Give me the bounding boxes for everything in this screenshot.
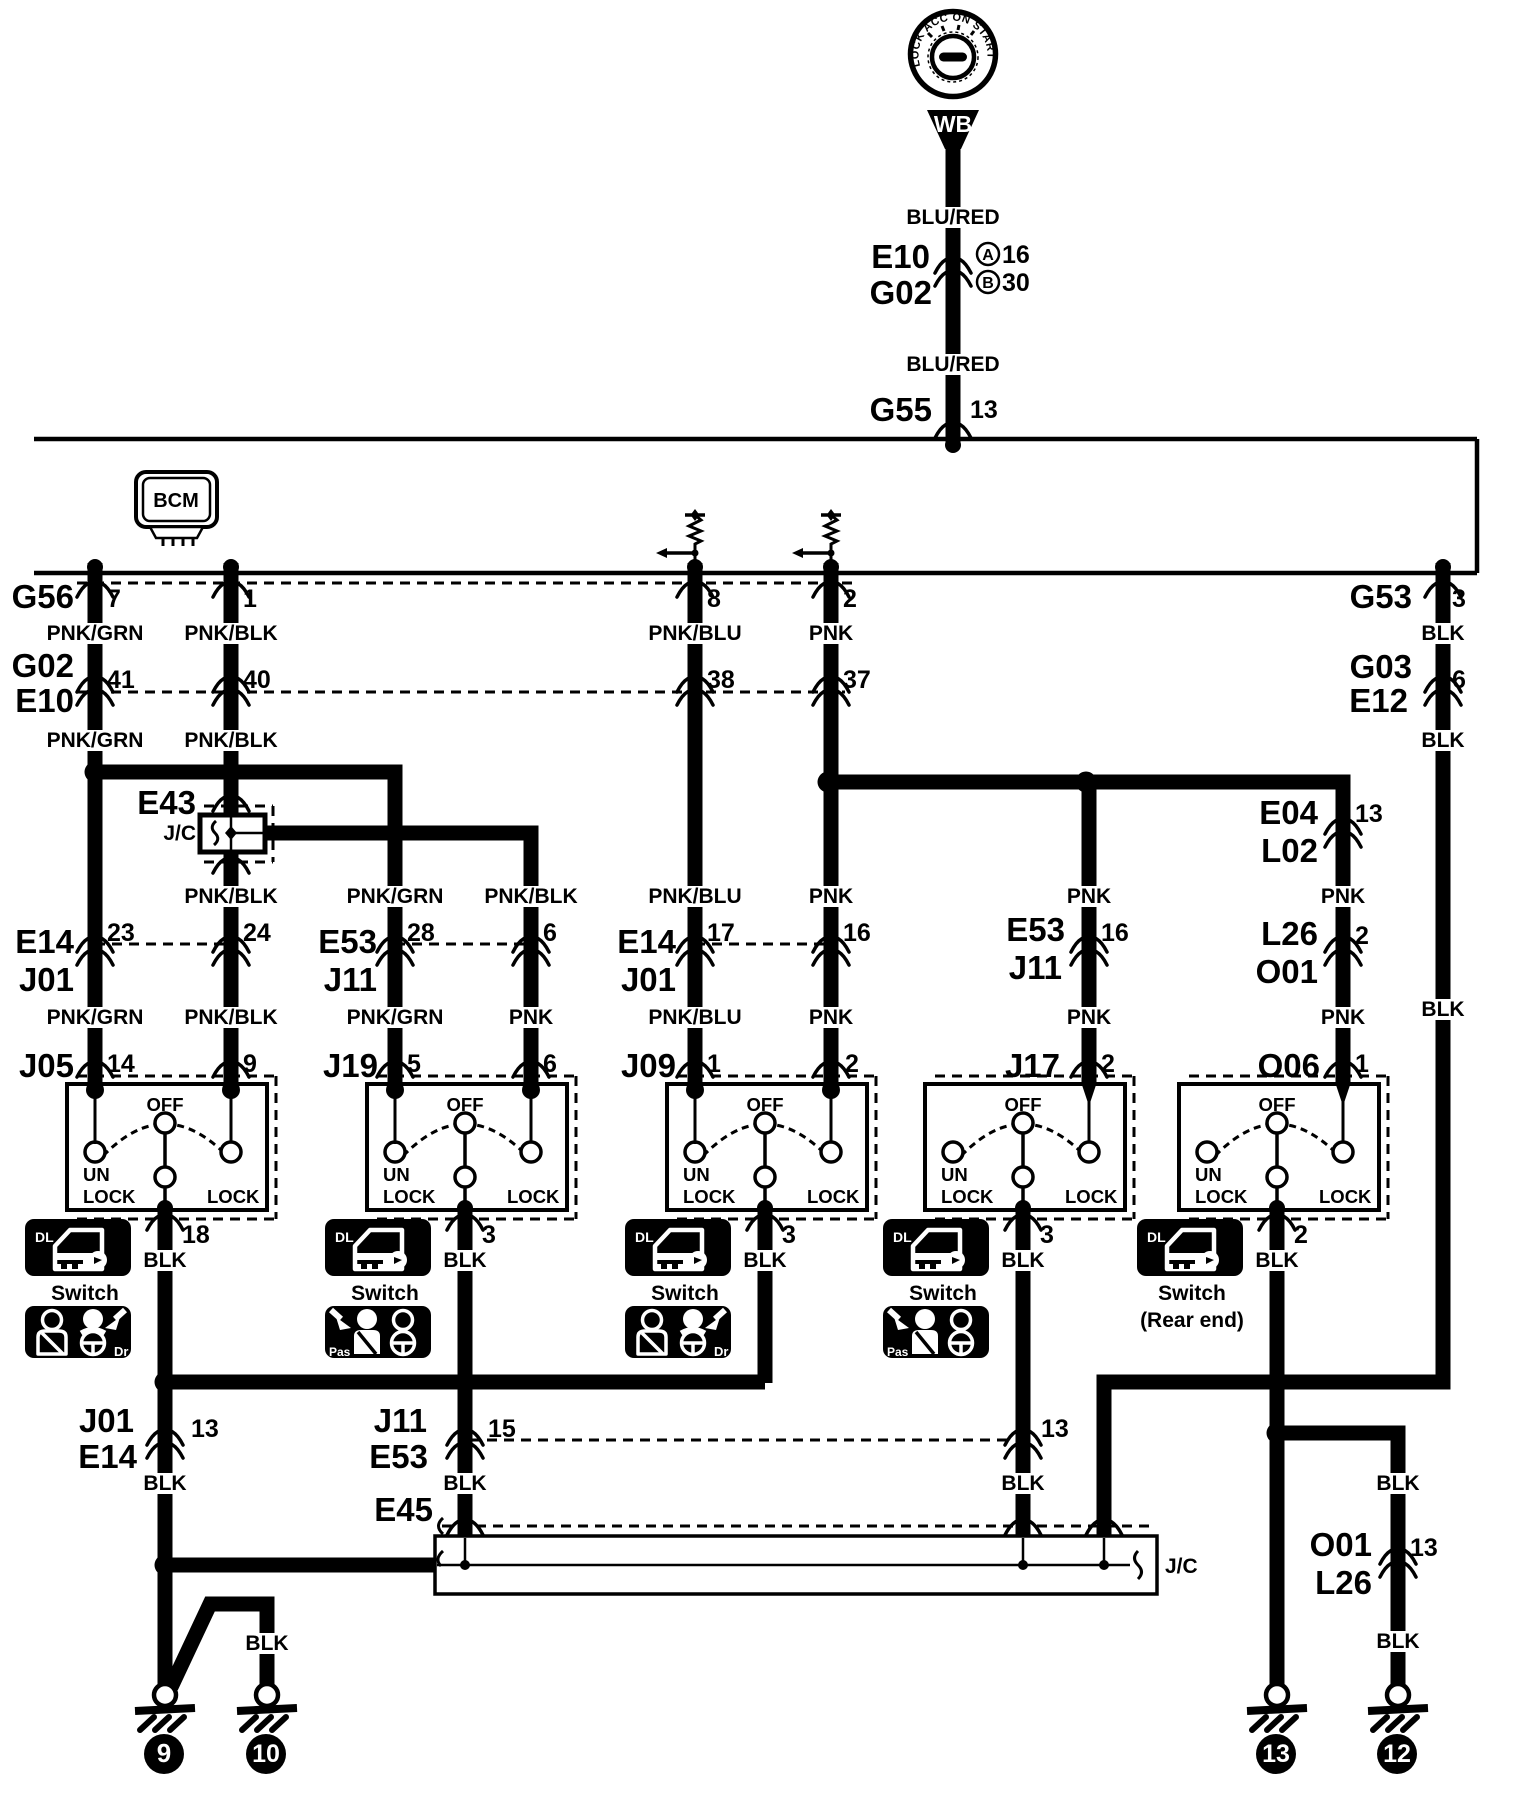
svg-text:Switch: Switch	[51, 1282, 119, 1305]
svg-text:WB: WB	[934, 111, 972, 137]
svg-text:J01: J01	[79, 1402, 134, 1439]
svg-text:E12: E12	[1349, 682, 1408, 719]
svg-text:2: 2	[843, 585, 857, 613]
svg-text:J11: J11	[374, 1402, 427, 1439]
svg-text:6: 6	[1452, 666, 1466, 694]
svg-text:E10: E10	[15, 682, 74, 719]
svg-text:J05: J05	[19, 1047, 74, 1084]
svg-text:Switch: Switch	[651, 1282, 719, 1305]
svg-text:J09: J09	[621, 1047, 676, 1084]
svg-text:E53: E53	[318, 923, 377, 960]
svg-text:G53: G53	[1350, 578, 1412, 615]
svg-text:PNK: PNK	[1321, 1006, 1365, 1029]
svg-text:E14: E14	[78, 1438, 137, 1475]
svg-text:PNK/BLK: PNK/BLK	[184, 885, 277, 908]
svg-text:37: 37	[843, 666, 871, 694]
svg-text:O01: O01	[1310, 1526, 1372, 1563]
svg-text:J11: J11	[324, 961, 377, 998]
svg-text:PNK: PNK	[1321, 885, 1365, 908]
svg-text:PNK/BLK: PNK/BLK	[184, 729, 277, 752]
svg-text:PNK/BLK: PNK/BLK	[184, 1006, 277, 1029]
svg-text:G02: G02	[12, 647, 74, 684]
svg-text:2: 2	[1355, 922, 1369, 950]
svg-text:BLK: BLK	[1376, 1630, 1419, 1653]
svg-text:13: 13	[1041, 1415, 1069, 1443]
svg-text:L26: L26	[1261, 915, 1318, 952]
svg-text:1: 1	[243, 585, 257, 613]
svg-text:1: 1	[707, 1050, 721, 1078]
svg-text:O06: O06	[1258, 1047, 1320, 1084]
svg-text:1: 1	[1355, 1050, 1369, 1078]
svg-text:38: 38	[707, 666, 735, 694]
svg-text:E45: E45	[374, 1491, 433, 1528]
svg-text:PNK/BLK: PNK/BLK	[484, 885, 577, 908]
svg-text:PNK: PNK	[809, 885, 853, 908]
svg-text:15: 15	[488, 1415, 516, 1443]
svg-text:BLK: BLK	[1001, 1472, 1044, 1495]
svg-text:E53: E53	[369, 1438, 428, 1475]
svg-text:18: 18	[182, 1221, 210, 1249]
svg-text:16: 16	[843, 919, 871, 947]
svg-text:E10: E10	[871, 238, 930, 275]
svg-text:PNK: PNK	[1067, 885, 1111, 908]
svg-text:PNK/BLU: PNK/BLU	[648, 1006, 741, 1029]
svg-text:23: 23	[107, 919, 135, 947]
svg-text:Switch: Switch	[1158, 1282, 1226, 1305]
svg-text:J/C: J/C	[163, 822, 196, 845]
svg-text:BLK: BLK	[743, 1249, 786, 1272]
svg-text:PNK/BLU: PNK/BLU	[648, 622, 741, 645]
svg-text:PNK: PNK	[809, 622, 853, 645]
svg-text:13: 13	[1355, 800, 1383, 828]
svg-text:G55: G55	[870, 391, 932, 428]
svg-text:PNK/GRN: PNK/GRN	[47, 622, 144, 645]
svg-text:G56: G56	[12, 578, 74, 615]
svg-text:3: 3	[782, 1221, 796, 1249]
svg-text:7: 7	[107, 585, 121, 613]
svg-text:J19: J19	[323, 1047, 378, 1084]
svg-text:BLK: BLK	[443, 1249, 486, 1272]
svg-text:E14: E14	[15, 923, 74, 960]
svg-text:BLU/RED: BLU/RED	[906, 353, 999, 376]
svg-text:J01: J01	[19, 961, 74, 998]
svg-text:6: 6	[543, 919, 557, 947]
svg-text:13: 13	[191, 1415, 219, 1443]
svg-text:BLK: BLK	[143, 1472, 186, 1495]
svg-text:G03: G03	[1350, 648, 1412, 685]
svg-text:12: 12	[1383, 1740, 1411, 1768]
svg-text:J01: J01	[621, 961, 676, 998]
svg-text:BLK: BLK	[1376, 1472, 1419, 1495]
svg-text:BLK: BLK	[1421, 622, 1464, 645]
svg-text:PNK/GRN: PNK/GRN	[47, 1006, 144, 1029]
svg-text:A: A	[982, 247, 994, 264]
svg-text:B: B	[982, 275, 994, 292]
svg-text:BLK: BLK	[443, 1472, 486, 1495]
svg-text:24: 24	[243, 919, 271, 947]
svg-text:BCM: BCM	[153, 490, 199, 512]
svg-text:Switch: Switch	[909, 1282, 977, 1305]
svg-text:3: 3	[482, 1221, 496, 1249]
svg-text:E43: E43	[137, 784, 196, 821]
svg-text:BLK: BLK	[245, 1632, 288, 1655]
svg-text:28: 28	[407, 919, 435, 947]
svg-text:E14: E14	[617, 923, 676, 960]
svg-text:Switch: Switch	[351, 1282, 419, 1305]
svg-text:PNK/BLK: PNK/BLK	[184, 622, 277, 645]
svg-text:14: 14	[107, 1050, 135, 1078]
svg-text:40: 40	[243, 666, 271, 694]
svg-text:PNK: PNK	[1067, 1006, 1111, 1029]
svg-text:13: 13	[1262, 1740, 1290, 1768]
svg-text:PNK/GRN: PNK/GRN	[347, 885, 444, 908]
svg-text:BLU/RED: BLU/RED	[906, 206, 999, 229]
svg-text:13: 13	[1410, 1534, 1438, 1562]
svg-text:J/C: J/C	[1165, 1555, 1198, 1578]
svg-text:PNK/GRN: PNK/GRN	[47, 729, 144, 752]
svg-text:13: 13	[970, 396, 998, 424]
svg-text:3: 3	[1452, 585, 1466, 613]
svg-text:E04: E04	[1259, 794, 1318, 831]
svg-text:41: 41	[107, 666, 135, 694]
svg-text:BLK: BLK	[1421, 998, 1464, 1021]
svg-text:L26: L26	[1315, 1564, 1372, 1601]
svg-text:16: 16	[1101, 919, 1129, 947]
svg-text:2: 2	[1294, 1221, 1308, 1249]
svg-text:(Rear end): (Rear end)	[1140, 1309, 1244, 1332]
svg-text:3: 3	[1040, 1221, 1054, 1249]
svg-text:8: 8	[707, 585, 721, 613]
svg-text:5: 5	[407, 1050, 421, 1078]
svg-text:J11: J11	[1009, 949, 1062, 986]
svg-text:BLK: BLK	[1421, 729, 1464, 752]
svg-text:PNK: PNK	[509, 1006, 553, 1029]
svg-text:L02: L02	[1261, 832, 1318, 869]
svg-text:2: 2	[845, 1050, 859, 1078]
svg-text:O01: O01	[1256, 953, 1318, 990]
svg-text:BLK: BLK	[143, 1249, 186, 1272]
svg-text:G02: G02	[870, 274, 932, 311]
svg-text:17: 17	[707, 919, 735, 947]
svg-text:6: 6	[543, 1050, 557, 1078]
svg-text:PNK: PNK	[809, 1006, 853, 1029]
svg-text:10: 10	[252, 1740, 280, 1768]
svg-text:BLK: BLK	[1001, 1249, 1044, 1272]
svg-text:E53: E53	[1006, 911, 1065, 948]
svg-text:9: 9	[157, 1738, 171, 1768]
svg-text:30: 30	[1002, 269, 1030, 297]
svg-text:J17: J17	[1005, 1047, 1060, 1084]
svg-text:BLK: BLK	[1255, 1249, 1298, 1272]
svg-text:PNK/BLU: PNK/BLU	[648, 885, 741, 908]
svg-text:2: 2	[1101, 1050, 1115, 1078]
svg-text:16: 16	[1002, 241, 1030, 269]
svg-text:9: 9	[243, 1050, 257, 1078]
svg-text:PNK/GRN: PNK/GRN	[347, 1006, 444, 1029]
